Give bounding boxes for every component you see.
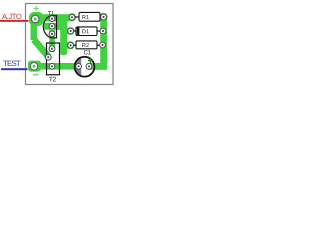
svg-text:T2: T2 (49, 76, 57, 83)
svg-text:T1: T1 (48, 11, 55, 17)
svg-text:R1: R1 (82, 15, 89, 21)
svg-text:TEST: TEST (3, 59, 21, 68)
svg-text:R2: R2 (82, 43, 89, 49)
svg-text:D1: D1 (82, 29, 89, 35)
svg-text:A.JTO: A.JTO (2, 12, 22, 21)
svg-text:C1: C1 (84, 49, 92, 56)
